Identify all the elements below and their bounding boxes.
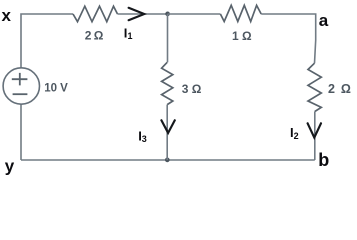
svg-text:2: 2 <box>294 131 299 141</box>
wire: top junction down to resistor 3 ohm <box>167 14 169 62</box>
wire: bottom rail from node b to node y <box>21 159 315 161</box>
wire: resistor 2 ohm to top junction <box>118 13 168 15</box>
svg-text:1 Ω: 1 Ω <box>232 29 252 43</box>
svg-text:2 Ω: 2 Ω <box>85 29 104 43</box>
node junction top (dot) <box>165 12 170 17</box>
voltage source V1 10V (circle) <box>3 68 39 104</box>
wire: resistor 3 ohm to bottom junction <box>166 105 168 160</box>
minus sign of source <box>13 93 28 95</box>
wire: bottom-left corner up to voltage source <box>20 104 22 160</box>
svg-text:a: a <box>319 11 329 30</box>
wire: right resistor to node b corner <box>314 112 316 161</box>
svg-text:3 Ω: 3 Ω <box>182 82 202 96</box>
current arrow I1 (pointing right) <box>129 8 145 20</box>
node junction bottom (dot) <box>165 158 170 163</box>
svg-text:2 Ω: 2 Ω <box>328 82 352 96</box>
svg-text:x: x <box>2 6 12 25</box>
svg-text:1: 1 <box>128 31 133 41</box>
resistor 1 ohm (top-right, horizontal zigzag) <box>220 5 261 21</box>
svg-text:10 V: 10 V <box>44 83 68 95</box>
plus sign of source <box>12 73 28 86</box>
svg-text:b: b <box>318 150 329 170</box>
resistor 2 ohm (right, vertical zigzag) <box>308 63 321 111</box>
resistor 3 ohm (middle, vertical zigzag) <box>162 62 173 104</box>
wire: resistor 1 ohm to node a corner, down to resistor 2 ohm right <box>261 14 316 63</box>
wire: node x corner to resistor R1 (top-left L) <box>21 14 73 68</box>
svg-text:3: 3 <box>142 134 147 144</box>
resistor 2 ohm (top-left, horizontal zigzag) <box>73 6 118 22</box>
svg-text:y: y <box>5 157 15 176</box>
current arrow I2 (pointing down) <box>308 123 321 137</box>
wire: top junction to resistor 1 ohm <box>168 13 221 15</box>
current arrow I3 (pointing down) <box>161 120 174 133</box>
